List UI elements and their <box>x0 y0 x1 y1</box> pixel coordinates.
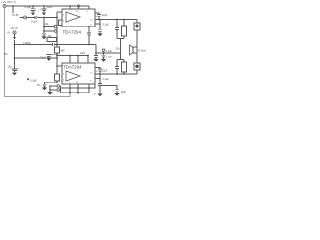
terminal switch circle <box>54 25 57 28</box>
capacitor C5 <box>11 69 18 72</box>
svg-text:0.56µF: 0.56µF <box>23 42 31 45</box>
svg-text:0.1µF: 0.1µF <box>103 78 110 81</box>
svg-text:ST-BY: ST-BY <box>12 14 20 17</box>
wire bridge coupling vertical <box>120 39 122 60</box>
pin numbers U1 <box>63 11 93 27</box>
svg-text:AC IN: AC IN <box>11 27 18 30</box>
wire gnd cluster <box>50 86 57 92</box>
wire feedback line y53 <box>96 52 121 54</box>
node tap <box>56 54 58 56</box>
wire into IC1 pin3 <box>57 11 62 13</box>
svg-text:TDA7294: TDA7294 <box>63 30 82 35</box>
capacitor C18 22uF <box>42 84 46 87</box>
ground <box>97 34 102 37</box>
terminal ST-BY <box>24 16 27 19</box>
capacitor C4 10uF <box>42 33 46 36</box>
speaker LS1 <box>133 47 137 53</box>
svg-text:22µF: 22µF <box>102 14 108 17</box>
svg-text:+Vs (Pin 7): +Vs (Pin 7) <box>1 0 16 4</box>
node tap <box>56 82 58 84</box>
capacitor C12 22uF to gnd <box>94 53 98 59</box>
wire U1 pin2 feedback down <box>88 26 90 28</box>
svg-text:8 Ohms: 8 Ohms <box>138 48 146 52</box>
wire lower input line y58 <box>15 57 58 59</box>
terminal pin circle on rail <box>77 5 79 7</box>
wire to C17 <box>100 85 117 89</box>
op-amp U2 triangle <box>66 71 80 81</box>
svg-text:10µF: 10µF <box>121 91 127 94</box>
capacitor C6 0.56uF (inline) <box>52 43 96 46</box>
inductor L1 parallel R <box>136 20 138 24</box>
wire down to mute RC <box>43 18 45 34</box>
capacitor C13 2.2uF to gnd <box>101 53 105 59</box>
svg-text:22µ: 22µ <box>37 84 42 87</box>
node junctions on +Vs rail <box>12 5 71 7</box>
wire U1 feedback left loop <box>59 20 63 26</box>
ground <box>30 12 35 15</box>
capacitor C10 0.1uF to gnd <box>98 20 102 34</box>
wire input line y44.5 <box>15 44 53 46</box>
wire stub from rail at x13 <box>12 6 14 13</box>
svg-text:22µF: 22µF <box>40 57 46 60</box>
capacitor C2 <box>42 6 47 12</box>
terminal circle <box>102 49 105 52</box>
capacitor C1 <box>31 6 36 12</box>
svg-text:TDA7294: TDA7294 <box>63 64 82 69</box>
inductor L2 parallel R <box>134 63 140 70</box>
wire into IC2 pin3 <box>57 65 62 67</box>
svg-text:2.2µF: 2.2µF <box>106 57 112 59</box>
capacitor C15 zobel bottom <box>115 60 119 75</box>
wire U1 bootstrap pin <box>95 13 99 15</box>
capacitor C16 0.1uF (inline) <box>98 74 102 93</box>
svg-text:0.1µF: 0.1µF <box>103 24 110 27</box>
terminal switch circle <box>54 30 57 33</box>
svg-text:22µF: 22µF <box>102 70 108 73</box>
wire U2 bootstrap pin <box>95 68 100 70</box>
op-amp U1 box <box>62 9 95 27</box>
resistor R2 680 <box>55 47 60 53</box>
capacitor C7 22uF <box>46 55 51 58</box>
op-amp U1 triangle <box>66 12 80 22</box>
wire U2 top pins <box>70 56 88 64</box>
wire U1 top pins <box>70 6 89 9</box>
ground <box>12 72 17 75</box>
svg-text:0.1µF: 0.1µF <box>25 5 32 9</box>
resistor R5 zobel bottom <box>123 72 125 74</box>
ground <box>114 93 119 96</box>
svg-text:0.1µF: 0.1µF <box>106 50 113 53</box>
svg-text:22µF: 22µF <box>80 52 86 55</box>
wire to C7 <box>49 53 57 55</box>
resistor R6 680 <box>55 74 60 81</box>
svg-text:22µF: 22µF <box>47 5 53 9</box>
terminal input <box>13 31 16 34</box>
wire feedback corner down <box>95 45 97 54</box>
pin numbers U2 <box>63 72 93 84</box>
wire +Vs left drop (faint) <box>5 8 71 97</box>
wire mute to switch <box>44 26 54 28</box>
ground <box>97 94 102 97</box>
svg-text:0.1µF: 0.1µF <box>31 21 38 24</box>
wire U2 top pin line <box>57 55 88 57</box>
svg-text:10µ: 10µ <box>8 66 13 69</box>
wire U1 -Vs pin <box>95 23 100 25</box>
ground <box>46 58 51 61</box>
wire U1 output rail <box>95 19 137 21</box>
wire left vertical <box>60 86 62 93</box>
wire mute line <box>27 17 36 19</box>
wire stby to switch <box>44 30 54 32</box>
wire U2 bottom pins <box>70 84 89 93</box>
ground <box>41 12 46 15</box>
capacitor C3 0.1uF (inline) <box>35 16 57 19</box>
wire to terminal <box>20 17 24 19</box>
node junction <box>43 17 45 19</box>
svg-text:IN: IN <box>8 32 11 35</box>
wire -Vs bus upper <box>61 84 96 88</box>
svg-text:680: 680 <box>61 50 66 53</box>
annotation 0.56uF arrow <box>27 79 30 81</box>
wire U2 output rail <box>95 73 137 75</box>
ground <box>93 59 98 62</box>
wire top +Vs rail <box>6 5 89 7</box>
wire zobel join <box>117 38 124 40</box>
ground <box>47 92 52 95</box>
op-amp U2 box <box>62 63 95 84</box>
wire -Vs bus lower <box>61 92 90 94</box>
svg-text:0.5µF: 0.5µF <box>31 80 38 83</box>
terminal +Vs <box>3 5 6 8</box>
wire U2 -Vs pin <box>95 78 100 80</box>
wire to C18 <box>45 82 58 84</box>
resistor R3 zobel <box>123 20 125 27</box>
wire input down with arrow <box>14 34 16 37</box>
capacitor C11 zobel <box>115 20 119 39</box>
ground <box>101 59 106 62</box>
capacitor C8 22uF (inline) <box>87 33 91 45</box>
terminal circles mute stby U2 <box>57 85 60 88</box>
ground <box>42 88 47 91</box>
wire mid vertical bus <box>56 12 58 74</box>
wire zobel join bottom <box>117 59 124 61</box>
ground <box>42 37 47 40</box>
